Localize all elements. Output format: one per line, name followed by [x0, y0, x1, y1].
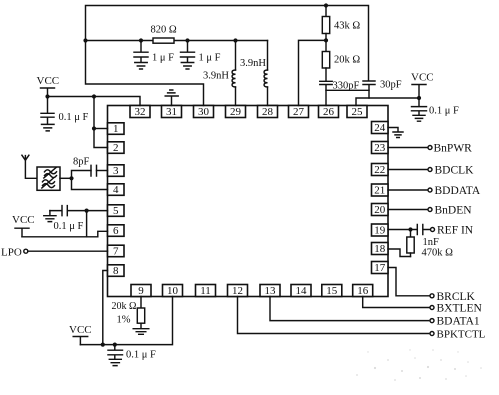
- svg-text:32: 32: [135, 106, 146, 118]
- svg-text:20k Ω: 20k Ω: [112, 301, 137, 312]
- terminal BXTLEN: [430, 303, 483, 315]
- svg-text:0.1 μ F: 0.1 μ F: [59, 112, 89, 123]
- svg-text:470k Ω: 470k Ω: [422, 248, 454, 259]
- svg-text:1: 1: [113, 123, 119, 135]
- svg-text:24: 24: [374, 122, 386, 134]
- ground under 0.1uF (top left): [42, 124, 55, 130]
- terminal BnDEN: [428, 205, 472, 217]
- pin 31: [162, 106, 182, 119]
- IC body outline: [108, 106, 389, 297]
- pin 3: [108, 165, 125, 177]
- svg-text:31: 31: [166, 106, 177, 118]
- capacitor 0.1uF (bottom): [108, 345, 123, 359]
- wire left vertical to pin30 rail: [86, 41, 204, 106]
- svg-text:4: 4: [113, 184, 119, 196]
- svg-text:BDDATA: BDDATA: [435, 185, 481, 197]
- ground left of 0.1uF (pin5): [44, 211, 56, 222]
- pin 5: [108, 205, 125, 217]
- svg-text:1 μ F: 1 μ F: [199, 53, 221, 64]
- svg-text:BPKTCTL: BPKTCTL: [437, 329, 486, 341]
- pin 32: [130, 106, 150, 119]
- terminal BDCLK: [428, 165, 474, 177]
- wire pin 18 to 470k bottom: [388, 249, 411, 257]
- pin 11: [196, 285, 216, 298]
- wire node down to pin 4: [72, 178, 108, 189]
- svg-text:8: 8: [113, 265, 119, 277]
- node dot bottom rail 0.1uF: [113, 343, 117, 347]
- svg-text:8pF: 8pF: [73, 157, 90, 168]
- svg-text:BDATA1: BDATA1: [437, 316, 480, 328]
- pin 8: [108, 265, 125, 277]
- filter FL1 box: [37, 167, 60, 190]
- svg-text:30pF: 30pF: [380, 80, 402, 91]
- VCC (top right): [411, 72, 434, 99]
- pin 20: [372, 204, 389, 217]
- resistor R 820ohm: [153, 38, 174, 43]
- terminal BDATA1: [430, 316, 480, 328]
- wire L2 to pin28: [267, 87, 269, 106]
- capacitor 330pF: [320, 81, 332, 105]
- svg-text:5: 5: [113, 205, 119, 217]
- wire pin 8 down to bottom rail: [103, 271, 108, 345]
- ground under 0.1uF (bottom): [109, 359, 121, 365]
- node dot REF IN: [408, 227, 412, 231]
- node dot pin29 branch: [233, 38, 237, 42]
- pin 10: [163, 285, 183, 298]
- pin 22: [372, 164, 389, 177]
- node dot 820 rail left: [83, 38, 87, 42]
- node dot pin 1 branch: [92, 126, 96, 130]
- wire VCC to pin 6 with jog: [22, 231, 108, 237]
- svg-text:43k Ω: 43k Ω: [334, 21, 360, 32]
- pin 27: [289, 106, 309, 119]
- node dot 1uF first: [139, 38, 143, 42]
- pin 15: [322, 285, 342, 298]
- VCC (top left): [37, 75, 60, 97]
- wire node to pins 1 and 2: [94, 97, 108, 148]
- svg-text:BXTLEN: BXTLEN: [437, 303, 483, 315]
- svg-text:20k Ω: 20k Ω: [334, 55, 360, 66]
- svg-text:18: 18: [374, 243, 386, 255]
- svg-text:3: 3: [113, 165, 119, 177]
- capacitor C 1uF (second): [181, 41, 195, 63]
- wire 330pF bottom to 30pF bottom: [326, 89, 369, 91]
- svg-text:3.9nH: 3.9nH: [203, 71, 229, 82]
- wire to pin 1: [94, 128, 108, 130]
- wire VCC to pin 32: [48, 97, 141, 106]
- capacitor 0.1uF (top right): [412, 98, 427, 115]
- pin 12: [228, 285, 248, 298]
- capacitor 1nF: [411, 225, 431, 235]
- resistor 43k: [322, 6, 329, 41]
- wire node up to 8pF: [72, 171, 92, 179]
- svg-text:15: 15: [326, 285, 338, 297]
- pin 25: [347, 106, 367, 119]
- wire 820 rail: [86, 40, 268, 42]
- wire 8pF to pin 3: [97, 170, 108, 172]
- pin 9: [131, 285, 151, 298]
- wire pin 20: [388, 209, 428, 211]
- wire pin 13 to BDATA1: [270, 297, 429, 321]
- svg-text:2: 2: [113, 142, 119, 154]
- resistor 470k: [407, 230, 414, 257]
- svg-text:25: 25: [352, 106, 364, 118]
- wire 0.1uF node down to VCC wire: [86, 211, 88, 237]
- node dot VCC top left: [45, 94, 49, 98]
- svg-text:VCC: VCC: [12, 214, 35, 226]
- node dot 0.1uF pin5: [85, 209, 89, 213]
- terminal REF IN: [431, 225, 474, 237]
- LPO terminal: [1, 246, 28, 258]
- node dot top rail 43k: [324, 3, 328, 7]
- svg-text:9: 9: [138, 285, 144, 297]
- capacitor 0.1uF (top left): [41, 97, 54, 125]
- wire pin 23: [388, 147, 428, 149]
- pin 16: [353, 285, 373, 298]
- svg-text:1 μ F: 1 μ F: [152, 53, 174, 64]
- wire pin 12 to BPKTCTL: [238, 297, 429, 334]
- svg-text:20: 20: [374, 204, 386, 216]
- terminal BnPWR: [428, 143, 472, 155]
- svg-text:VCC: VCC: [37, 75, 60, 87]
- svg-text:820 Ω: 820 Ω: [151, 25, 177, 36]
- ground under 0.1uF (top right): [413, 115, 425, 121]
- wire filter to node: [60, 177, 72, 179]
- node dot VCC top right: [417, 96, 421, 100]
- svg-text:11: 11: [200, 285, 211, 297]
- pin 1: [108, 123, 125, 135]
- svg-text:330pF: 330pF: [333, 81, 360, 92]
- capacitor 0.1uF (pin 5): [50, 206, 108, 216]
- svg-text:28: 28: [262, 106, 274, 118]
- VCC (left mid): [12, 214, 35, 237]
- resistor 20k 1% below pin 9: [137, 297, 144, 329]
- pin 30: [194, 106, 214, 119]
- wire 43k junction to pin27: [299, 40, 327, 105]
- wire pin28 branch: [267, 41, 269, 71]
- svg-text:3.9nH: 3.9nH: [240, 58, 266, 69]
- pin 18: [372, 243, 389, 256]
- wire bottom rail to pin 10: [80, 297, 172, 345]
- svg-text:0.1 μ F: 0.1 μ F: [126, 350, 156, 361]
- svg-text:BnDEN: BnDEN: [435, 205, 473, 217]
- svg-text:19: 19: [374, 225, 386, 237]
- pin 14: [291, 285, 311, 298]
- wire pin 16 to BXTLEN: [363, 297, 429, 308]
- pin 28: [258, 106, 278, 119]
- svg-text:VCC: VCC: [69, 324, 92, 336]
- terminal BPKTCTL: [430, 329, 486, 341]
- terminal BDDATA: [428, 185, 481, 197]
- pin 21: [372, 184, 389, 197]
- svg-text:16: 16: [357, 285, 369, 297]
- wire pin25 to VCC node: [356, 98, 419, 106]
- svg-text:BDCLK: BDCLK: [435, 165, 475, 177]
- antenna: [22, 155, 37, 178]
- svg-text:29: 29: [230, 106, 242, 118]
- terminal BRCLK: [430, 291, 476, 303]
- svg-text:21: 21: [374, 185, 385, 197]
- ground above pin 31 (inverted): [165, 90, 178, 106]
- capacitor 30pF: [363, 81, 375, 98]
- pin 17: [372, 262, 389, 275]
- wire pin 24 to ground: [388, 128, 398, 132]
- svg-text:LPO: LPO: [1, 246, 22, 258]
- pin 6: [108, 225, 125, 237]
- svg-text:26: 26: [323, 106, 335, 118]
- VCC (bottom): [69, 324, 92, 345]
- svg-text:REF IN: REF IN: [437, 225, 474, 237]
- svg-text:27: 27: [293, 106, 305, 118]
- pin 2: [108, 142, 125, 154]
- svg-text:10: 10: [167, 285, 179, 297]
- svg-text:23: 23: [374, 142, 386, 154]
- inductor L1 3.9nH: [232, 70, 235, 87]
- pin 29: [226, 106, 246, 119]
- ground under 20k: [133, 329, 149, 335]
- svg-text:VCC: VCC: [411, 72, 434, 84]
- wire top rail: [86, 6, 369, 81]
- wire pin 21: [388, 189, 428, 191]
- capacitor 8pF: [91, 165, 97, 176]
- node dot pins 1-2 branch: [92, 94, 96, 98]
- capacitor C 1uF (first): [134, 41, 148, 63]
- pin 7: [108, 245, 125, 257]
- svg-text:13: 13: [265, 285, 277, 297]
- resistor 20k: [322, 40, 329, 81]
- wire pin29 branch: [235, 41, 237, 71]
- filter squiggles: [42, 168, 57, 188]
- ground under first 1uF: [135, 63, 147, 70]
- svg-text:30: 30: [198, 106, 210, 118]
- svg-text:0.1 μ F: 0.1 μ F: [54, 221, 84, 232]
- inductor L2 3.9nH: [264, 70, 267, 87]
- node dot bottom rail pin8: [101, 343, 105, 347]
- svg-text:0.1 μ F: 0.1 μ F: [429, 106, 459, 117]
- svg-text:22: 22: [374, 164, 385, 176]
- ground under second 1uF: [181, 63, 193, 70]
- pin 26: [319, 106, 339, 119]
- wire pin 19 to node: [388, 229, 411, 231]
- svg-text:6: 6: [113, 225, 119, 237]
- svg-text:14: 14: [296, 285, 308, 297]
- pin 13: [260, 285, 280, 298]
- node dot 1uF second: [185, 38, 189, 42]
- svg-text:17: 17: [374, 262, 386, 274]
- watermark speckles: [374, 367, 376, 369]
- pin 19: [372, 224, 389, 237]
- wire pin 22: [388, 169, 428, 171]
- svg-text:12: 12: [232, 285, 243, 297]
- ground at pin 24: [393, 132, 403, 138]
- pin 4: [108, 184, 125, 196]
- svg-text:BRCLK: BRCLK: [437, 291, 476, 303]
- svg-text:7: 7: [113, 246, 119, 258]
- node dot 43k-20k junction: [324, 38, 328, 42]
- wire pin 17 to BRCLK: [388, 268, 429, 296]
- pin 23: [372, 142, 389, 155]
- svg-text:1%: 1%: [117, 315, 131, 326]
- svg-text:1nF: 1nF: [423, 237, 440, 248]
- wire LPO to pin 7: [28, 250, 108, 252]
- node dot filter output: [69, 176, 73, 180]
- svg-text:BnPWR: BnPWR: [434, 143, 473, 155]
- wire L1 to pin29: [235, 87, 237, 106]
- pin 24: [372, 122, 389, 135]
